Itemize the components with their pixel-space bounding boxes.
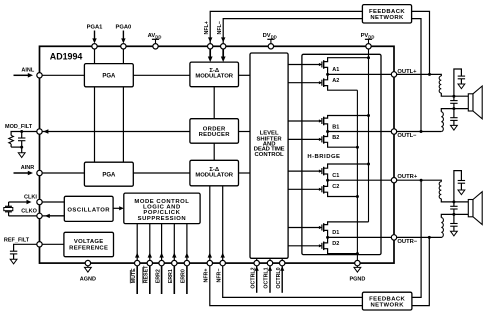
svg-text:OUTL+: OUTL+	[397, 69, 417, 75]
svg-text:PGA1: PGA1	[87, 25, 104, 31]
svg-text:OUTR+: OUTR+	[397, 174, 417, 180]
svg-text:OCTRL0: OCTRL0	[276, 267, 282, 288]
svg-text:C2: C2	[332, 184, 339, 190]
svg-text:C1: C1	[332, 173, 339, 179]
svg-text:PGA: PGA	[102, 172, 116, 178]
svg-text:ERR1: ERR1	[168, 269, 174, 283]
svg-text:NETWORK: NETWORK	[370, 15, 404, 21]
svg-text:NETWORK: NETWORK	[371, 303, 405, 309]
svg-text:OSCILLATOR: OSCILLATOR	[67, 207, 110, 213]
svg-text:PGND: PGND	[349, 277, 365, 283]
svg-text:A1: A1	[332, 67, 339, 73]
svg-text:A2: A2	[332, 78, 339, 84]
svg-text:ERR2: ERR2	[155, 269, 161, 283]
svg-text:CLKI: CLKI	[24, 195, 37, 201]
svg-text:OCTRL2: OCTRL2	[250, 267, 256, 288]
svg-text:D2: D2	[332, 241, 339, 247]
svg-text:DD: DD	[271, 34, 277, 39]
svg-text:H-BRIDGE: H-BRIDGE	[307, 154, 340, 160]
svg-text:DD: DD	[368, 34, 374, 39]
svg-text:DV: DV	[263, 33, 271, 39]
svg-text:AINL: AINL	[21, 67, 34, 73]
svg-text:D1: D1	[332, 230, 339, 236]
svg-text:MOD_FILT: MOD_FILT	[5, 124, 33, 130]
svg-text:MODULATOR: MODULATOR	[195, 173, 233, 179]
svg-text:PV: PV	[361, 33, 369, 39]
svg-text:NFR+: NFR+	[204, 269, 210, 283]
svg-text:NFL−: NFL−	[217, 21, 223, 34]
svg-text:RESET: RESET	[144, 265, 150, 283]
svg-text:B1: B1	[332, 124, 339, 130]
svg-text:MUTE: MUTE	[131, 268, 137, 283]
svg-text:DD: DD	[155, 34, 161, 39]
svg-text:OUTL−: OUTL−	[397, 133, 417, 139]
svg-text:NFL+: NFL+	[204, 21, 210, 34]
svg-text:OCTRL1: OCTRL1	[264, 267, 270, 288]
svg-text:SUPPRESSION: SUPPRESSION	[138, 216, 187, 222]
svg-text:PGA0: PGA0	[116, 25, 132, 31]
svg-text:CLKO: CLKO	[21, 209, 37, 215]
svg-text:PGA: PGA	[102, 73, 116, 79]
svg-text:AV: AV	[148, 33, 156, 39]
svg-text:REFERENCE: REFERENCE	[69, 246, 108, 252]
svg-text:AINR: AINR	[21, 165, 34, 171]
svg-text:AD1994: AD1994	[50, 52, 83, 62]
svg-text:B2: B2	[332, 135, 339, 141]
svg-text:ERR0: ERR0	[181, 269, 187, 283]
svg-text:AGND: AGND	[80, 277, 96, 283]
svg-text:OUTR−: OUTR−	[397, 239, 417, 245]
svg-text:REDUCER: REDUCER	[199, 132, 231, 138]
svg-text:MODULATOR: MODULATOR	[195, 74, 233, 80]
svg-text:CONTROL: CONTROL	[255, 152, 285, 158]
svg-text:VOLTAGE: VOLTAGE	[74, 239, 104, 245]
svg-text:REF_FILT: REF_FILT	[4, 237, 30, 243]
svg-text:NFR−: NFR−	[216, 269, 222, 283]
